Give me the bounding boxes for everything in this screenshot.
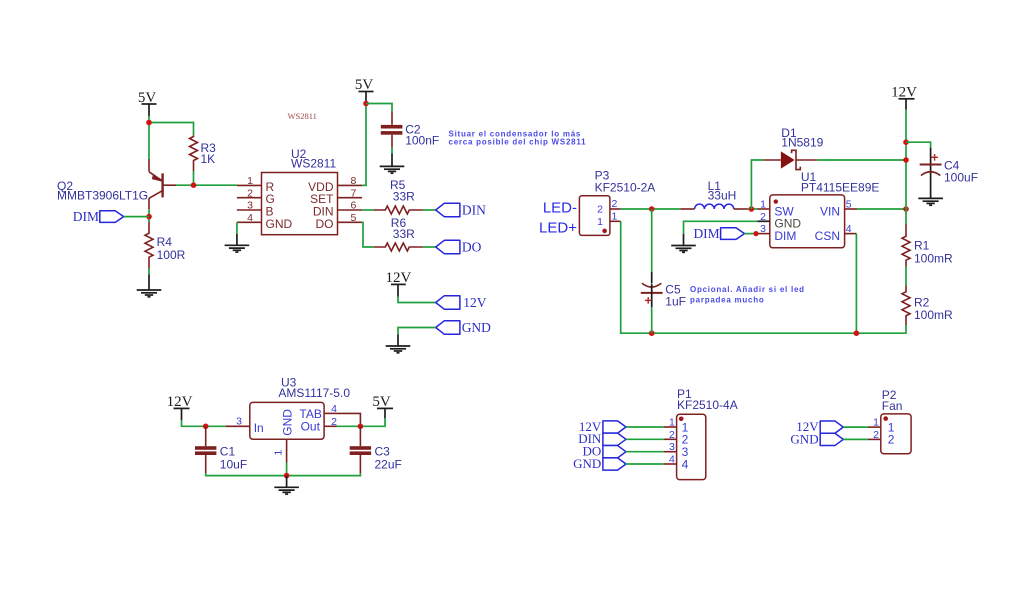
- ground (U1 GND): [671, 234, 696, 252]
- pin 1 SW: [758, 208, 770, 210]
- resistor R1: [902, 224, 953, 267]
- pin 2: [237, 197, 262, 199]
- diode D1 1N5819: [764, 126, 824, 170]
- wire CSN down to rail: [855, 234, 857, 334]
- wire U3 GND pin to rail: [286, 463, 288, 476]
- wire 5V junction to C2: [366, 104, 392, 112]
- junction DIM/pin3: [753, 231, 758, 236]
- svg-text:100R: 100R: [157, 248, 186, 262]
- svg-text:R1: R1: [914, 239, 930, 253]
- ground (under C2): [380, 154, 405, 174]
- label DIN: [436, 203, 486, 218]
- wire 5V to junction: [148, 116, 150, 123]
- svg-text:4: 4: [331, 403, 337, 415]
- pin 3 In: [226, 425, 250, 427]
- label GND: [436, 320, 491, 335]
- svg-text:WS2811: WS2811: [291, 157, 336, 171]
- svg-text:GND: GND: [462, 320, 491, 335]
- svg-text:10uF: 10uF: [220, 458, 247, 472]
- svg-text:1K: 1K: [201, 152, 216, 166]
- svg-text:GND: GND: [266, 217, 293, 231]
- junction P3/C5: [649, 206, 655, 212]
- pin 5 VIN: [845, 208, 857, 210]
- pin 4 CSN: [845, 233, 857, 235]
- ground (labels section): [386, 335, 411, 353]
- svg-text:3: 3: [247, 200, 253, 212]
- pin 5: [338, 221, 363, 223]
- wire R5 to DIN label: [423, 209, 436, 211]
- wire TAB to Out: [337, 413, 361, 426]
- wire R2 to rail: [905, 325, 907, 333]
- svg-text:2: 2: [888, 433, 895, 447]
- svg-text:3: 3: [760, 223, 766, 235]
- capacitor C5: [641, 209, 686, 333]
- wire VIN to 12V line: [857, 208, 906, 210]
- svg-text:2: 2: [331, 416, 337, 428]
- junction C5/rail: [649, 330, 655, 336]
- wire U1 GND pin to ground: [684, 221, 758, 234]
- wire D1 cathode to 12V line: [817, 159, 906, 161]
- ground (U3): [274, 476, 299, 495]
- pin 2 Out: [324, 425, 336, 427]
- wire junction to R3 top: [149, 123, 194, 136]
- label 12V (P1): [579, 419, 626, 434]
- wire GND label to ground: [398, 328, 436, 335]
- pin 7: [338, 197, 363, 199]
- regulator U3 AMS1117-5.0: [226, 375, 351, 462]
- svg-text:DIM: DIM: [693, 226, 719, 241]
- junction base/R3: [191, 182, 197, 188]
- wire 12V down to R1: [905, 110, 907, 224]
- power 12V (driver): [891, 85, 917, 110]
- junction U3 GND/rail: [284, 473, 290, 479]
- junction 12V/C4: [903, 139, 909, 145]
- svg-text:2: 2: [597, 203, 603, 215]
- svg-text:C3: C3: [375, 445, 391, 459]
- ground (under R4): [137, 275, 162, 297]
- inductor L1: [680, 179, 747, 209]
- power 5V (Q2 section): [138, 90, 157, 116]
- pin 1: [237, 184, 262, 186]
- capacitor C3: [350, 426, 402, 473]
- svg-text:DIM: DIM: [73, 209, 99, 224]
- label GND (P2): [790, 431, 843, 446]
- resistor R5: [374, 178, 423, 214]
- svg-text:2: 2: [873, 429, 879, 441]
- svg-text:100uF: 100uF: [944, 171, 978, 185]
- wire R4 to ground: [148, 269, 150, 275]
- svg-text:Opcional. Añadir si el led: Opcional. Añadir si el led: [690, 285, 805, 294]
- junction VIN: [903, 206, 909, 212]
- pin 3 DIM: [758, 233, 770, 235]
- svg-text:4: 4: [247, 212, 253, 224]
- wire D1 anode branch: [751, 160, 763, 209]
- label DIM (U1): [693, 226, 744, 241]
- svg-text:PT4115EE89E: PT4115EE89E: [801, 180, 880, 194]
- svg-text:LED+: LED+: [539, 220, 577, 237]
- wire R1 to R2: [905, 267, 907, 286]
- svg-text:8: 8: [351, 175, 357, 187]
- wire U2 pin8 up to 5V: [362, 104, 366, 186]
- wire L1 to SW: [748, 208, 758, 210]
- junction SW/D1: [749, 206, 755, 212]
- wire Out to 5V: [337, 418, 386, 426]
- svg-text:DO: DO: [462, 240, 482, 255]
- svg-text:7: 7: [351, 187, 357, 199]
- svg-text:1: 1: [612, 210, 618, 222]
- pin 1: [664, 426, 677, 428]
- label GND (P1): [573, 456, 626, 471]
- wire pin6 to R5: [362, 209, 374, 211]
- power 12V (labels section): [385, 270, 411, 297]
- label DIM (input, left): [73, 209, 124, 224]
- pin 2 GND: [757, 220, 770, 222]
- svg-text:Out: Out: [301, 419, 321, 433]
- power 12V (U3): [167, 394, 193, 420]
- svg-text:2: 2: [247, 187, 253, 199]
- svg-text:C1: C1: [220, 445, 236, 459]
- chip U1 PT4115EE89E: [757, 170, 879, 248]
- svg-text:LED-: LED-: [543, 200, 577, 217]
- label DO: [436, 240, 482, 255]
- label 12V (P2): [796, 419, 843, 434]
- svg-text:2: 2: [669, 429, 675, 441]
- pin 8: [338, 184, 363, 186]
- svg-text:12V: 12V: [385, 270, 411, 286]
- svg-text:GND: GND: [790, 431, 818, 446]
- svg-text:4: 4: [682, 457, 689, 471]
- svg-text:2: 2: [760, 211, 766, 223]
- svg-text:CSN: CSN: [815, 229, 840, 243]
- note text: [449, 129, 587, 146]
- capacitor C2: [381, 112, 439, 148]
- wire C2 to ground: [391, 148, 393, 154]
- svg-text:1: 1: [597, 216, 603, 228]
- pin 3: [237, 209, 262, 211]
- connector P1: [664, 387, 738, 479]
- svg-text:100mR: 100mR: [914, 252, 953, 266]
- svg-text:5: 5: [351, 212, 357, 224]
- svg-text:5: 5: [846, 199, 852, 211]
- wire 12V to P1.1: [626, 426, 664, 428]
- wire GND to P1.4: [626, 463, 664, 465]
- svg-text:33uH: 33uH: [708, 188, 737, 202]
- wire DIM to junction: [124, 216, 149, 218]
- wire junction down to Q2 emitter: [148, 123, 150, 160]
- svg-text:GND: GND: [573, 456, 601, 471]
- svg-text:1: 1: [273, 450, 285, 456]
- svg-text:MMBT3906LT1G: MMBT3906LT1G: [57, 189, 148, 203]
- pin 4 TAB: [324, 412, 336, 414]
- wire C4 branch: [906, 142, 931, 147]
- wire GND to P2.2: [843, 438, 868, 440]
- svg-text:DIM: DIM: [774, 229, 796, 243]
- svg-text:VIN: VIN: [820, 205, 840, 219]
- svg-text:4: 4: [846, 223, 852, 235]
- power 5V (U3): [372, 394, 393, 418]
- svg-text:1: 1: [760, 199, 766, 211]
- junction 12V/D1: [903, 157, 909, 163]
- resistor R6: [374, 216, 423, 251]
- svg-text:parpadea mucho: parpadea mucho: [690, 296, 765, 305]
- svg-text:Fan: Fan: [882, 399, 903, 413]
- capacitor C4: [920, 148, 978, 198]
- resistor R2: [902, 286, 953, 326]
- pin 3: [664, 451, 677, 453]
- connector P2: [868, 388, 911, 454]
- connector P3: [579, 168, 655, 235]
- svg-text:12V: 12V: [463, 295, 487, 310]
- wire collector down: [148, 209, 150, 222]
- resistor R3: [190, 135, 217, 171]
- pin 1: [868, 426, 881, 428]
- wire 12V to label: [398, 297, 436, 303]
- wire P3 pin2 to L1: [621, 208, 681, 210]
- svg-text:33R: 33R: [393, 190, 415, 204]
- wire R6 to DO label: [423, 246, 436, 248]
- junction CSN/rail: [854, 330, 860, 336]
- svg-text:GND: GND: [280, 409, 294, 436]
- svg-text:R4: R4: [157, 235, 173, 249]
- svg-text:2: 2: [612, 198, 618, 210]
- wire pin5 down and to R6: [362, 222, 374, 247]
- svg-text:1: 1: [669, 417, 675, 429]
- svg-text:3: 3: [236, 416, 242, 428]
- junction 5V/C2: [363, 101, 369, 107]
- svg-text:1uF: 1uF: [665, 295, 686, 309]
- svg-text:5V: 5V: [355, 77, 374, 93]
- label DIN (P1): [578, 431, 626, 446]
- svg-text:100mR: 100mR: [914, 308, 953, 322]
- wire DO to P1.3: [626, 451, 664, 453]
- pin 2: [664, 438, 677, 440]
- label 12V: [436, 295, 487, 310]
- wire R3 bottom to base junction: [193, 171, 195, 185]
- svg-text:KF2510-4A: KF2510-4A: [677, 398, 738, 412]
- wire P3 pin1 down to rail: [621, 221, 906, 333]
- svg-text:33R: 33R: [393, 227, 415, 241]
- op chip U2 WS2811: [237, 147, 362, 235]
- power 5V (U2 section): [355, 77, 374, 104]
- pin 4: [237, 221, 262, 223]
- svg-text:6: 6: [351, 200, 357, 212]
- pin 2: [868, 438, 881, 440]
- svg-text:cerca posible del chip WS2811: cerca posible del chip WS2811: [449, 138, 587, 147]
- pin 1 GND: [286, 439, 288, 462]
- transistor Q2: [57, 159, 176, 209]
- svg-text:1: 1: [873, 417, 879, 429]
- wire base to U2 pin1: [176, 184, 237, 186]
- resistor R4: [145, 222, 186, 269]
- svg-text:3: 3: [669, 441, 675, 453]
- note text (C5): [690, 285, 805, 304]
- junction A: [146, 120, 152, 126]
- wire 12V to In: [182, 420, 226, 426]
- junction DIM: [146, 214, 152, 220]
- wire DIN to P1.2: [626, 438, 664, 440]
- junction C1/In: [203, 424, 209, 430]
- svg-text:WS2811: WS2811: [288, 111, 317, 121]
- svg-text:1: 1: [247, 175, 253, 187]
- label DO (P1): [583, 444, 626, 459]
- wire ground rail (U3): [206, 473, 361, 476]
- junction Out/C3: [358, 424, 364, 430]
- svg-text:DO: DO: [316, 217, 334, 231]
- pin 4: [664, 463, 677, 465]
- svg-text:DIN: DIN: [462, 203, 486, 218]
- capacitor C1: [195, 426, 247, 473]
- svg-text:100nF: 100nF: [405, 134, 439, 148]
- svg-text:1N5819: 1N5819: [781, 136, 823, 150]
- svg-text:In: In: [254, 421, 264, 435]
- wire U2 pin4 to ground: [236, 222, 238, 234]
- wire DIM label to pin3: [745, 233, 758, 235]
- svg-text:4: 4: [669, 454, 675, 466]
- ground (under U2 pin4): [225, 234, 250, 252]
- ground (under C4): [918, 198, 943, 205]
- svg-text:KF2510-2A: KF2510-2A: [595, 180, 656, 194]
- wire 12V to P2.1: [843, 426, 868, 428]
- svg-text:22uF: 22uF: [375, 458, 402, 472]
- pin 6: [338, 209, 363, 211]
- svg-text:AMS1117-5.0: AMS1117-5.0: [278, 386, 350, 400]
